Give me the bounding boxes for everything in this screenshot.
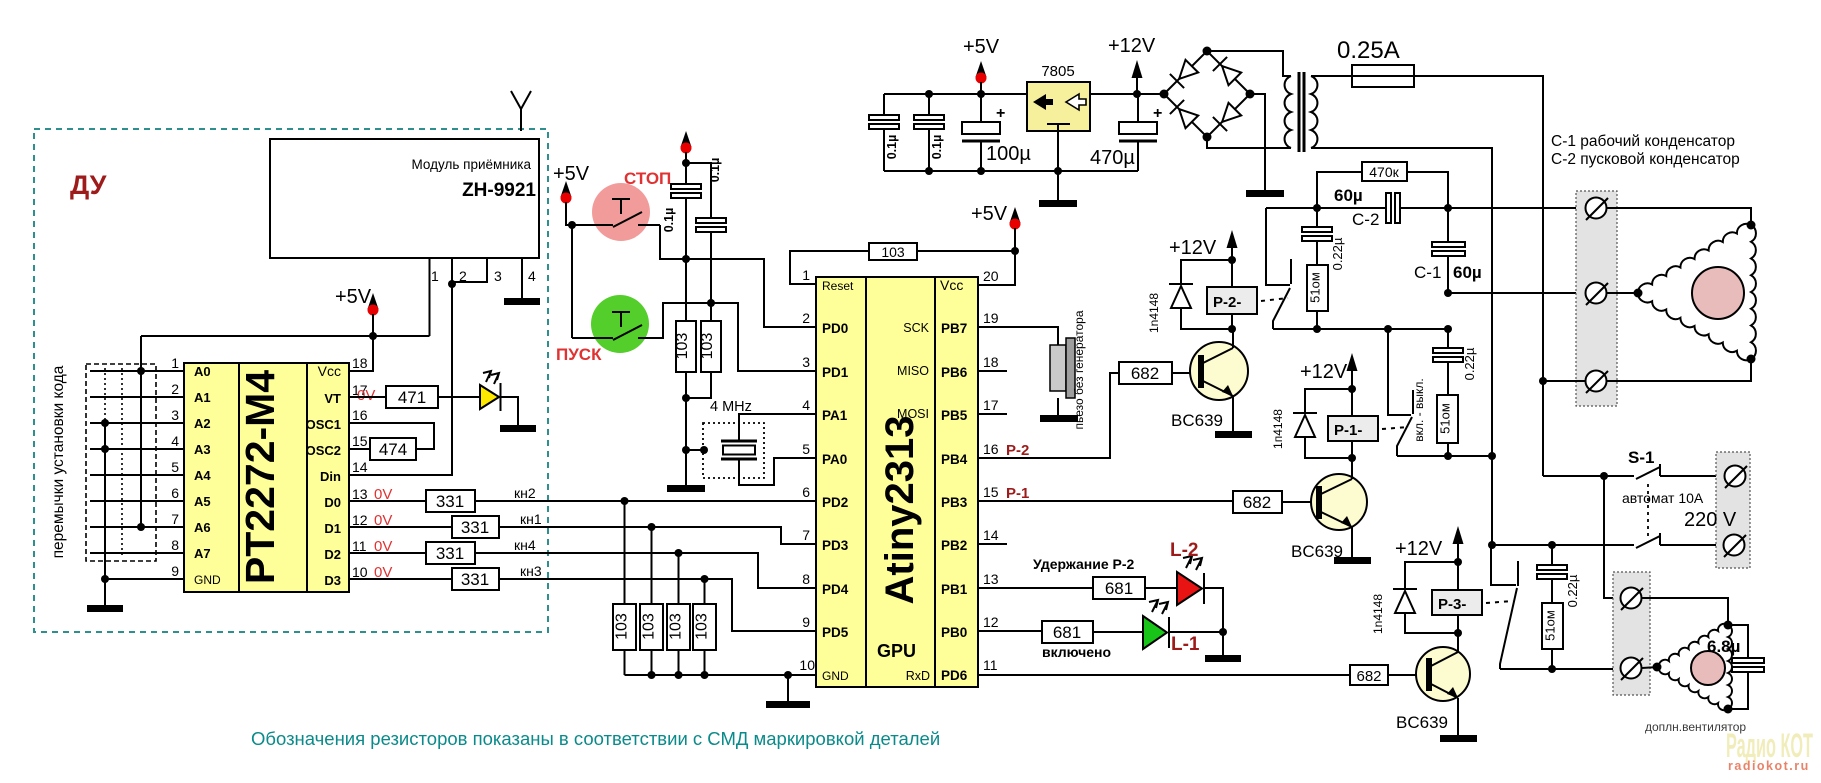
wire: bridge minus to ground bbox=[1250, 94, 1265, 190]
svg-text:1п4148: 1п4148 bbox=[1271, 409, 1285, 449]
svg-text:12: 12 bbox=[983, 614, 999, 630]
svg-text:471: 471 bbox=[398, 388, 426, 407]
svg-text:14: 14 bbox=[983, 527, 999, 543]
power +5V arrow (caps) bbox=[681, 131, 692, 147]
bridge rectifier VD1-VD4 bbox=[1164, 51, 1250, 137]
wire: LED cathode to ground bbox=[501, 397, 518, 425]
wire: A3 pin4 bbox=[90, 448, 184, 450]
wire: 682 to Q1 base bbox=[1172, 372, 1199, 374]
svg-text:перемычки установки кода: перемычки установки кода bbox=[50, 365, 67, 558]
stub PB2 bbox=[978, 543, 1007, 545]
node motor bottom bbox=[1747, 355, 1756, 364]
svg-text:5: 5 bbox=[171, 459, 179, 475]
svg-text:ПУСК: ПУСК bbox=[556, 345, 602, 364]
svg-text:Модуль приёмника: Модуль приёмника bbox=[412, 157, 532, 172]
svg-text:12: 12 bbox=[352, 512, 368, 528]
wire: VT to R 471 bbox=[349, 396, 386, 398]
svg-text:Atiny2313: Atiny2313 bbox=[878, 416, 922, 605]
svg-text:51ом: 51ом bbox=[1308, 272, 1323, 303]
resistor 103 (PD2 pulldown) bbox=[613, 604, 636, 650]
resistor 681 (L-2) bbox=[1093, 577, 1145, 599]
relay coil P-2 bbox=[1207, 287, 1257, 314]
remote-control dashed enclosure ДУ bbox=[34, 129, 548, 632]
svg-text:Обозначения резисторов показан: Обозначения резисторов показаны в соотве… bbox=[251, 728, 940, 749]
svg-text:7805: 7805 bbox=[1041, 63, 1074, 80]
svg-text:331: 331 bbox=[461, 570, 489, 589]
node: pulldown tie bbox=[682, 394, 690, 402]
snubber P-3: resistor 51om bbox=[1542, 603, 1563, 649]
wire: A2 pin3 bbox=[90, 422, 184, 424]
node: motor tap bbox=[1539, 377, 1547, 385]
snubber P-2: capacitor 0.22u bbox=[1316, 208, 1318, 265]
relay P-1 contact (вкл-выкл) bbox=[1388, 329, 1411, 415]
wire: D1 to R331b bbox=[349, 526, 452, 528]
resistor 103 (PD5 pulldown) bbox=[693, 604, 716, 650]
wire: motor rail A (y208) bbox=[1266, 207, 1387, 209]
diode 1n4148 (P-3) bbox=[1405, 562, 1458, 589]
svg-text:Удержание Р-2: Удержание Р-2 bbox=[1033, 556, 1134, 572]
node A6 jumper bbox=[137, 523, 145, 531]
svg-text:0.22µ: 0.22µ bbox=[1462, 347, 1477, 380]
wire: 682 to Q3 base bbox=[1388, 674, 1427, 676]
ground buttons net bbox=[667, 485, 705, 492]
wire: PB7 to piezo bbox=[978, 327, 1058, 345]
diode bridge top-left bbox=[1179, 60, 1198, 79]
ground Q3 bbox=[1440, 735, 1477, 742]
wire: crystal to PA1 bbox=[739, 414, 816, 441]
wire: D0 net to PD2 bbox=[475, 500, 816, 502]
wire: crystal to PA0 bbox=[739, 458, 816, 485]
svg-text:6: 6 bbox=[171, 485, 179, 501]
svg-text:2: 2 bbox=[459, 268, 467, 284]
svg-text:Р-1-: Р-1- bbox=[1334, 422, 1362, 439]
fuse FU1 0.25A bbox=[1352, 65, 1414, 87]
diode 1п4148 (P-1) bbox=[1305, 389, 1352, 413]
svg-text:D3: D3 bbox=[324, 573, 341, 588]
svg-text:331: 331 bbox=[436, 492, 464, 511]
svg-text:PB5: PB5 bbox=[941, 408, 968, 423]
svg-text:BC639: BC639 bbox=[1171, 411, 1223, 430]
svg-text:682: 682 bbox=[1356, 668, 1381, 685]
wire: PB0 to 681 bbox=[978, 630, 1042, 632]
svg-text:+: + bbox=[996, 105, 1005, 122]
svg-text:100µ: 100µ bbox=[986, 143, 1031, 165]
svg-text:PB3: PB3 bbox=[941, 495, 968, 510]
svg-text:8: 8 bbox=[171, 537, 179, 553]
svg-text:4 MHz: 4 MHz bbox=[710, 399, 752, 415]
node A2 jumper bbox=[101, 419, 109, 427]
node: pin2/pin3 junction bbox=[448, 280, 456, 288]
svg-text:1n4148: 1n4148 bbox=[1371, 594, 1385, 634]
node: +5V junction bbox=[369, 332, 377, 340]
switch SB1 СТОП bbox=[572, 199, 660, 227]
resistor 682 (Q2 base) bbox=[1233, 491, 1282, 513]
terminal 2 bbox=[1586, 283, 1607, 304]
svg-text:103: 103 bbox=[699, 333, 716, 360]
capacitor 6.8u fan bbox=[1728, 625, 1748, 709]
svg-text:103: 103 bbox=[614, 613, 631, 640]
button PUSK circle bbox=[591, 295, 649, 353]
svg-text:1: 1 bbox=[431, 268, 439, 284]
svg-text:682: 682 bbox=[1243, 493, 1271, 512]
node: mains B / P1 node bbox=[1488, 452, 1496, 460]
wire: 681 to LED L-1 bbox=[1093, 631, 1143, 633]
svg-text:15: 15 bbox=[983, 484, 999, 500]
ground Q1 bbox=[1215, 431, 1252, 438]
svg-text:60µ: 60µ bbox=[1453, 263, 1482, 282]
svg-text:PD6: PD6 bbox=[941, 668, 968, 683]
svg-text:MISO: MISO bbox=[897, 364, 929, 378]
wire: module pin1 to +5V rail bbox=[429, 258, 431, 336]
svg-text:пьезо без генератора: пьезо без генератора bbox=[1072, 310, 1086, 429]
svg-text:SCK: SCK bbox=[903, 321, 929, 335]
diode 1n4148 (P-2) bbox=[1181, 260, 1232, 284]
svg-text:9: 9 bbox=[802, 614, 810, 630]
wire: pulldown ground bus to GND pin10 bbox=[625, 674, 817, 676]
wire: P-3 contact output to fan bbox=[1500, 668, 1621, 670]
wire: L-1 cathode to ground bbox=[1170, 631, 1223, 633]
svg-text:RxD: RxD bbox=[906, 669, 930, 683]
capacitor C-2 starting 60u bbox=[1386, 193, 1391, 223]
svg-text:14: 14 bbox=[352, 459, 368, 475]
wire: PB3 P-1 drive bbox=[978, 500, 1233, 502]
svg-text:A1: A1 bbox=[194, 390, 211, 405]
svg-text:0.22µ: 0.22µ bbox=[1565, 574, 1580, 607]
resistor 103 (PD4 pulldown) bbox=[667, 604, 690, 650]
resistor 331 (кн4) bbox=[426, 542, 475, 564]
svg-text:С-1 рабочий конденсатор: С-1 рабочий конденсатор bbox=[1551, 133, 1735, 150]
svg-text:GPU: GPU bbox=[877, 641, 916, 661]
node: GND junction bbox=[784, 671, 792, 679]
terminal fan b bbox=[1621, 658, 1642, 679]
svg-text:3: 3 bbox=[171, 407, 179, 423]
svg-text:СТОП: СТОП bbox=[624, 169, 671, 188]
svg-text:1n4148: 1n4148 bbox=[1147, 293, 1161, 333]
svg-text:331: 331 bbox=[461, 518, 489, 537]
capacitor C-1 run 60u bbox=[1447, 208, 1449, 293]
svg-text:60µ: 60µ bbox=[1334, 186, 1363, 205]
svg-text:C-1: C-1 bbox=[1414, 263, 1441, 282]
svg-text:1: 1 bbox=[171, 355, 179, 371]
terminal fan a bbox=[1621, 588, 1642, 609]
svg-text:103: 103 bbox=[668, 613, 685, 640]
resistor 682 (Q3 base) bbox=[1350, 665, 1388, 685]
svg-text:включено: включено bbox=[1042, 644, 1111, 660]
svg-text:16: 16 bbox=[983, 441, 999, 457]
svg-text:L-2: L-2 bbox=[1170, 540, 1199, 561]
relay P-3 link dashed bbox=[1486, 601, 1513, 603]
snubber P-1: resistor 51om bbox=[1437, 395, 1458, 443]
svg-text:220 V: 220 V bbox=[1684, 509, 1737, 531]
svg-text:автомат 10А: автомат 10А bbox=[1622, 490, 1704, 506]
node GND jumper bbox=[101, 575, 109, 583]
resistor 474 bbox=[370, 438, 416, 460]
svg-text:MOSI: MOSI bbox=[897, 407, 929, 421]
svg-text:C-2: C-2 bbox=[1352, 210, 1379, 229]
svg-text:PA0: PA0 bbox=[822, 452, 847, 467]
jumper block dashed box (code set jumpers) bbox=[86, 364, 156, 561]
svg-text:PA1: PA1 bbox=[822, 408, 848, 423]
node A0 jumper bbox=[137, 367, 145, 375]
svg-text:+: + bbox=[1153, 105, 1162, 122]
transistor Q3 BC639 bbox=[1416, 647, 1470, 701]
wire: jumper A0/A6 to +5V bbox=[140, 336, 142, 527]
switch S-1 linkage dashed bbox=[1647, 484, 1649, 537]
svg-text:+5V: +5V bbox=[963, 36, 1000, 58]
svg-text:PB6: PB6 bbox=[941, 365, 968, 380]
svg-text:10: 10 bbox=[799, 657, 815, 673]
svg-text:6: 6 bbox=[802, 484, 810, 500]
svg-text:+5V: +5V bbox=[971, 203, 1008, 225]
ground Q2 bbox=[1334, 557, 1371, 564]
svg-text:PD4: PD4 bbox=[822, 582, 849, 597]
wire: GND bottom rail bbox=[884, 170, 1138, 172]
wire: bridge AC bottom to primary bbox=[1207, 137, 1291, 148]
resistor 103 (PD1 pulldown) bbox=[701, 321, 721, 372]
terminal 3 bbox=[1586, 371, 1607, 392]
wire: PB4 P-2 drive bbox=[978, 373, 1119, 458]
IC U3 PT2272-M4 bbox=[184, 363, 349, 592]
svg-text:PD5: PD5 bbox=[822, 625, 849, 640]
LED L-1 green bbox=[1143, 616, 1167, 649]
svg-text:0V: 0V bbox=[357, 387, 375, 404]
svg-text:0.1µ: 0.1µ bbox=[708, 158, 722, 183]
wire: +5V to Vcc pin20 bbox=[978, 251, 1015, 285]
node A3 jumper bbox=[101, 445, 109, 453]
terminal strip fan (gray) bbox=[1613, 572, 1650, 695]
svg-text:474: 474 bbox=[379, 440, 407, 459]
wire: crystal case tie bbox=[686, 449, 704, 451]
svg-text:A7: A7 bbox=[194, 546, 211, 561]
LED L-2 red bbox=[1177, 572, 1202, 605]
wire: cap2 branch bbox=[686, 163, 711, 398]
svg-text:2: 2 bbox=[802, 310, 810, 326]
node: LED ground junction bbox=[1219, 628, 1227, 636]
node: caps top tie bbox=[682, 159, 690, 167]
svg-text:3: 3 bbox=[802, 354, 810, 370]
svg-text:OSC1: OSC1 bbox=[306, 417, 341, 432]
switch S-1 pole2 bbox=[1636, 536, 1660, 548]
svg-text:PD2: PD2 bbox=[822, 495, 848, 510]
svg-text:17: 17 bbox=[983, 397, 999, 413]
svg-text:Reset: Reset bbox=[822, 279, 854, 293]
wire: terminal2 to motor left bbox=[1607, 292, 1638, 294]
wire: 681 to LED L-2 bbox=[1145, 587, 1177, 589]
svg-text:0.25A: 0.25A bbox=[1337, 37, 1400, 64]
wire: P-2 contact output bus y329 bbox=[1273, 328, 1448, 330]
wire: terminal1 to motor top bbox=[1607, 208, 1751, 225]
wire: D1 net to PD3 bbox=[499, 527, 816, 544]
svg-text:18: 18 bbox=[352, 355, 368, 371]
svg-text:кн3: кн3 bbox=[520, 563, 542, 579]
ground 7805 bbox=[1039, 200, 1077, 207]
wire: D2 to R331c bbox=[349, 552, 426, 554]
relay coil P-1 bbox=[1328, 416, 1378, 441]
svg-text:681: 681 bbox=[1053, 623, 1081, 642]
resistor 331 (кн2) bbox=[426, 490, 475, 512]
transistor Q2 BC639 bbox=[1311, 474, 1367, 530]
svg-text:D1: D1 bbox=[324, 521, 341, 536]
wire: terminal fan b to fan left bbox=[1642, 667, 1659, 668]
transistor Q1 BC639 bbox=[1190, 342, 1248, 400]
svg-text:PD1: PD1 bbox=[822, 365, 849, 380]
svg-text:11: 11 bbox=[352, 538, 367, 554]
motor M1 rotor bbox=[1692, 267, 1744, 319]
svg-text:103: 103 bbox=[641, 613, 658, 640]
svg-text:OSC2: OSC2 bbox=[306, 443, 341, 458]
svg-text:19: 19 bbox=[983, 310, 999, 326]
wire: 7805 ground bbox=[1057, 131, 1059, 200]
wire: A6 pin7 bbox=[90, 526, 184, 528]
wire: 471 to LED bbox=[438, 396, 480, 398]
capacitor C 0.1u (pusk) bbox=[696, 218, 726, 223]
svg-text:S-1: S-1 bbox=[1628, 448, 1654, 467]
transformer T1 core bbox=[1298, 72, 1301, 152]
svg-text:3: 3 bbox=[494, 268, 502, 284]
wire: GND pin9 bbox=[105, 578, 184, 580]
svg-text:BC639: BC639 bbox=[1291, 542, 1343, 561]
svg-text:вкл. - выкл.: вкл. - выкл. bbox=[1412, 378, 1426, 441]
IC U1 Atiny2313 bbox=[816, 277, 978, 687]
svg-text:PB4: PB4 bbox=[941, 452, 968, 467]
relay P-3 contact bbox=[1491, 545, 1516, 585]
svg-text:20: 20 bbox=[983, 268, 999, 284]
svg-text:103: 103 bbox=[881, 244, 905, 260]
relay P-2 link dashed bbox=[1261, 298, 1288, 301]
wire: PUSK to PD1 bbox=[658, 303, 816, 371]
node: pusk/cap junction bbox=[707, 299, 715, 307]
wire: L-2 cathode down bbox=[1205, 588, 1223, 632]
node fan top bbox=[1724, 621, 1733, 630]
wire: PD6 P-3 drive bbox=[978, 674, 1350, 676]
wire: module pin3 to pin2 bbox=[452, 258, 487, 282]
node motor left bbox=[1634, 289, 1643, 298]
fan M2 winding bbox=[1659, 624, 1732, 711]
svg-text:9: 9 bbox=[171, 563, 179, 579]
svg-text:L-1: L-1 bbox=[1171, 634, 1200, 655]
snubber P-2: resistor 51om bbox=[1307, 265, 1328, 311]
node motor top bbox=[1747, 221, 1756, 230]
wire: module pin4 to ground bbox=[521, 258, 523, 298]
node: crystal tie bbox=[682, 446, 690, 454]
svg-text:PB0: PB0 bbox=[941, 625, 967, 640]
svg-text:PT2272-M4: PT2272-M4 bbox=[237, 370, 283, 584]
resistor 331 (кн1) bbox=[452, 516, 499, 538]
svg-text:PD3: PD3 bbox=[822, 538, 849, 553]
resistor 470k (bleeder) bbox=[1317, 172, 1362, 208]
svg-text:GND: GND bbox=[822, 669, 849, 683]
resistor 103 (reset pullup) bbox=[790, 251, 869, 284]
svg-text:BC639: BC639 bbox=[1396, 713, 1448, 732]
wire: +5V top rail bbox=[884, 93, 1027, 95]
snubber P-3: capacitor 0.22u bbox=[1551, 545, 1553, 603]
svg-text:51ом: 51ом bbox=[1543, 610, 1558, 641]
svg-text:PB1: PB1 bbox=[941, 582, 968, 597]
svg-text:кн2: кн2 bbox=[514, 485, 536, 501]
wire: +12V rail to bridge bbox=[1090, 93, 1164, 95]
svg-text:radiokot.ru: radiokot.ru bbox=[1728, 759, 1810, 773]
wire: D3 to R331d bbox=[349, 578, 452, 580]
svg-text:PB2: PB2 bbox=[941, 538, 967, 553]
node: snubber P2 top bbox=[1313, 204, 1321, 212]
resistor 682 (Q1 base) bbox=[1119, 362, 1172, 384]
wire: PB1 to 681 bbox=[978, 587, 1093, 589]
svg-text:GND: GND bbox=[194, 573, 221, 587]
motor M1 winding (delta) bbox=[1638, 224, 1756, 360]
svg-text:681: 681 bbox=[1105, 579, 1133, 598]
wire: A0 pin1 bbox=[90, 370, 184, 372]
svg-text:6.8µ: 6.8µ bbox=[1707, 637, 1740, 656]
wire: +mains rail y545 bbox=[1492, 544, 1634, 546]
svg-text:ДУ: ДУ bbox=[70, 170, 108, 200]
receiver module U2 ZH-9921 bbox=[270, 139, 539, 258]
node fan bottom bbox=[1724, 705, 1733, 714]
svg-text:103: 103 bbox=[694, 613, 711, 640]
ground LED VT bbox=[500, 425, 536, 432]
wire: module pin2 down to Din net bbox=[349, 258, 452, 475]
svg-text:103: 103 bbox=[674, 333, 691, 360]
svg-text:кн4: кн4 bbox=[514, 537, 536, 553]
resistor 681 (L-1) bbox=[1042, 621, 1093, 643]
svg-text:Р-3-: Р-3- bbox=[1438, 596, 1466, 613]
relay P-1 link dashed bbox=[1382, 427, 1409, 429]
stub PB6 bbox=[978, 370, 1007, 372]
svg-text:A2: A2 bbox=[194, 416, 211, 431]
wire: D0 to R331a bbox=[349, 500, 426, 502]
regulator U4 7805 bbox=[1027, 82, 1090, 131]
terminal 220V line bbox=[1725, 466, 1746, 487]
wire: cap net vertical bbox=[685, 152, 687, 485]
svg-text:кн1: кн1 bbox=[520, 511, 542, 527]
svg-text:Р-1: Р-1 bbox=[1006, 485, 1029, 502]
svg-text:16: 16 bbox=[352, 407, 368, 423]
svg-text:4: 4 bbox=[528, 268, 536, 284]
ground module pin4 bbox=[504, 298, 540, 305]
svg-text:Vcc: Vcc bbox=[318, 363, 341, 379]
wire: +5V down to PUSK bbox=[571, 225, 573, 338]
svg-text:10: 10 bbox=[352, 564, 368, 580]
svg-text:0.1µ: 0.1µ bbox=[662, 208, 676, 233]
svg-text:D2: D2 bbox=[324, 547, 341, 562]
svg-text:+12V: +12V bbox=[1169, 237, 1217, 259]
svg-text:1: 1 bbox=[802, 267, 810, 283]
svg-text:PB7: PB7 bbox=[941, 321, 967, 336]
wire: D3 net to PD5 bbox=[499, 579, 816, 631]
wire: 682 to Q2 base bbox=[1282, 501, 1317, 503]
svg-text:С-2 пусковой конденсатор: С-2 пусковой конденсатор bbox=[1551, 151, 1740, 168]
svg-text:4: 4 bbox=[802, 397, 810, 413]
svg-text:A4: A4 bbox=[194, 468, 211, 483]
svg-text:+12V: +12V bbox=[1108, 35, 1156, 57]
resistor 471 bbox=[386, 386, 438, 408]
svg-text:8: 8 bbox=[802, 571, 810, 587]
snubber P-1: capacitor 0.22u bbox=[1447, 329, 1449, 395]
terminal strip motor (gray) bbox=[1576, 191, 1617, 406]
svg-text:+5V: +5V bbox=[335, 286, 372, 308]
node: +5V Vcc junction bbox=[1011, 247, 1019, 255]
svg-text:Din: Din bbox=[320, 469, 341, 484]
terminal 220V neutral bbox=[1724, 535, 1745, 556]
button STOP circle bbox=[592, 183, 650, 241]
node: mains B / rail bbox=[1488, 541, 1496, 549]
wire: D2 net to PD4 bbox=[475, 553, 816, 588]
wire: A5 pin6 bbox=[90, 500, 184, 502]
svg-text:D0: D0 bbox=[324, 495, 341, 510]
svg-text:0.1µ: 0.1µ bbox=[930, 135, 944, 160]
wire: A4 pin5 bbox=[90, 474, 184, 476]
ground LEDs bbox=[1205, 655, 1241, 662]
wire: reset pullup to +5V bbox=[917, 250, 1015, 252]
